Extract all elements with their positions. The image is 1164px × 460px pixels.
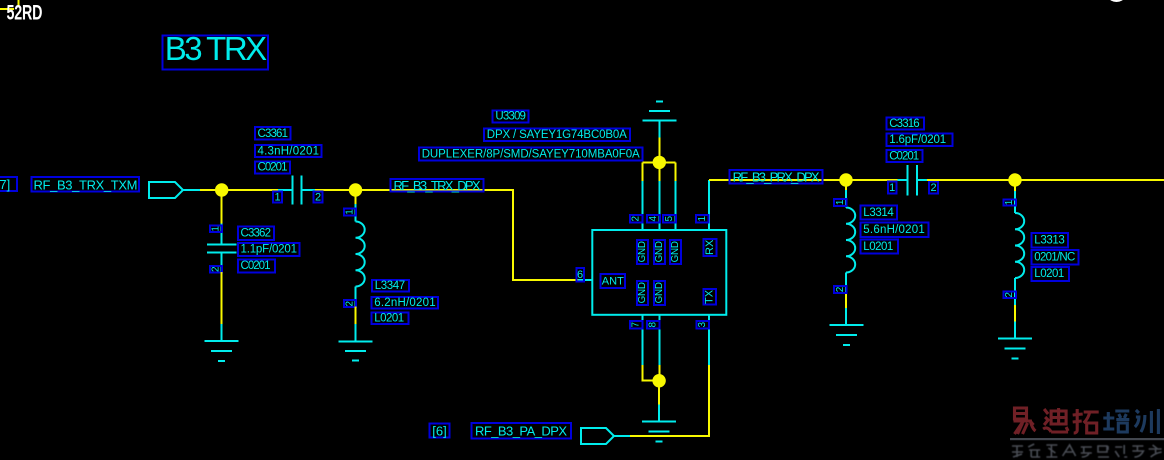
- footprint L0201 L3314: [861, 240, 898, 254]
- pin 6 of U3309: [578, 279, 592, 281]
- svg-text:1: 1: [344, 209, 355, 215]
- junction node TXM / L3347: [349, 183, 362, 196]
- svg-text:RF_B3_PRX_DPX: RF_B3_PRX_DPX: [733, 169, 820, 184]
- junction node TXM / C3362: [215, 183, 228, 196]
- wire net RF_B3_TRX_DPX to U3309 pin 6: [356, 190, 579, 280]
- watermark yidituo peixun text: [1014, 408, 1159, 434]
- ground below U3309: [642, 405, 676, 442]
- svg-text:1: 1: [697, 215, 708, 221]
- svg-text:1: 1: [274, 191, 280, 203]
- pin 4 of U3309: [658, 181, 660, 230]
- wire junction to C3361 pin 1: [222, 189, 278, 191]
- wire junction to pins 2 4 5: [642, 162, 675, 181]
- label C3316: [887, 118, 925, 130]
- pin 5 of U3309: [675, 181, 677, 230]
- wire junction to L3314 pin 1: [845, 180, 847, 190]
- svg-text:GND: GND: [670, 241, 681, 262]
- label L3314: [861, 206, 898, 220]
- svg-text:TX: TX: [704, 289, 716, 304]
- svg-text:5: 5: [664, 215, 675, 221]
- svg-text:7: 7: [631, 321, 642, 327]
- svg-text:[7]: [7]: [0, 177, 10, 192]
- pin name TX: [703, 289, 716, 305]
- value DPX / SAYEY1G74BC0B0A: [484, 129, 630, 141]
- pin 1 label L3313: [1003, 199, 1016, 205]
- svg-text:RF_B3_TRX_TXM: RF_B3_TRX_TXM: [34, 177, 138, 192]
- pin name GND pin2: [637, 240, 648, 264]
- svg-text:4: 4: [648, 215, 659, 221]
- label U3309: [493, 110, 529, 122]
- svg-text:U3309: U3309: [495, 111, 526, 123]
- pin 1 label C3316: [888, 182, 897, 194]
- svg-text:DPX / SAYEY1G74BC0B0A: DPX / SAYEY1G74BC0B0A: [487, 129, 627, 141]
- pin 2 label L3314: [834, 286, 846, 293]
- net label RF_B3_TRX_TXM: [31, 177, 139, 192]
- svg-text:[6]: [6]: [432, 423, 446, 438]
- wire junction to L3313 pin 1: [1014, 180, 1016, 191]
- pin 1 label L3314: [834, 199, 846, 206]
- pin 1 of U3309: [708, 180, 710, 230]
- watermark logo sliver top right: [1109, 0, 1124, 2]
- svg-text:1: 1: [1004, 199, 1015, 205]
- junction node PRX / L3313: [1008, 173, 1021, 186]
- inductor L3314: [846, 190, 855, 294]
- footprint L0201 L3347: [372, 313, 409, 325]
- label C3361: [255, 127, 291, 140]
- ground C3362: [205, 324, 239, 361]
- svg-text:L0201: L0201: [374, 313, 404, 325]
- svg-text:ANT: ANT: [602, 275, 624, 287]
- wire port to junction: [200, 189, 222, 191]
- label L3347: [372, 280, 409, 292]
- pin 2 label C3362: [210, 266, 222, 273]
- wire C3362 pin 2 to ground: [221, 272, 223, 324]
- svg-text:1: 1: [835, 199, 846, 205]
- wire junction to L3347 pin 1: [355, 190, 357, 204]
- pin 1 label C3362: [210, 226, 222, 233]
- svg-text:52RD: 52RD: [7, 1, 43, 24]
- pin number 3: [697, 321, 710, 329]
- svg-text:DUPLEXER/8P/SMD/SAYEY710MBA0F0: DUPLEXER/8P/SMD/SAYEY710MBA0F0A: [422, 148, 640, 160]
- wire pin 7 to junction below U3309: [643, 365, 660, 381]
- pin name GND pin7: [637, 281, 648, 305]
- pin number 2: [630, 215, 643, 223]
- svg-text:L3313: L3313: [1034, 235, 1065, 247]
- capacitor C3316: [898, 165, 927, 196]
- watermark slogan small text: [0, 0, 1, 1]
- wire pin 3 to port RF_B3_PA_DPX: [630, 365, 709, 436]
- svg-text:L0201: L0201: [863, 241, 893, 253]
- footprint C0201: [255, 161, 290, 173]
- title B3 TRX: [162, 30, 268, 69]
- svg-text:2: 2: [211, 266, 222, 272]
- wire ground to junction above U3309: [658, 138, 660, 163]
- svg-text:RF_B3_PA_DPX: RF_B3_PA_DPX: [475, 423, 567, 438]
- svg-text:C0201: C0201: [258, 162, 288, 174]
- svg-text:6: 6: [577, 269, 583, 281]
- wire L3313 pin 2 to ground: [1014, 305, 1016, 322]
- label L3313: [1032, 233, 1069, 247]
- wire C3361 pin 2 to junction: [315, 189, 356, 191]
- footprint DUPLEXER/8P/SMD/SAYEY710MBA0F0A: [419, 148, 642, 161]
- net label RF_B3_TRX_DPX: [390, 178, 483, 193]
- pin name GND pin8: [654, 281, 665, 305]
- wire L3347 pin 2 to ground: [355, 307, 357, 325]
- watermark underline: [1010, 438, 1164, 440]
- svg-text:L0201: L0201: [1034, 268, 1064, 280]
- label C3362: [238, 226, 274, 240]
- wire C3316 pin 2 to right edge: [927, 179, 1164, 181]
- svg-text:C3316: C3316: [889, 118, 920, 130]
- svg-text:L3347: L3347: [375, 280, 406, 292]
- ground L3314: [830, 308, 864, 345]
- wire clipped top-left horizontal: [0, 8, 14, 10]
- inductor L3347: [356, 204, 365, 307]
- svg-text:2: 2: [835, 286, 846, 292]
- reference label [7]: [0, 177, 17, 192]
- pin name GND pin4: [654, 240, 665, 264]
- footprint L0201 L3313: [1032, 267, 1069, 281]
- reference label [6]: [429, 423, 449, 438]
- pin number 6: [576, 268, 584, 281]
- svg-text:1: 1: [889, 182, 895, 194]
- pin 7 of U3309: [642, 315, 644, 365]
- svg-text:B3 TRX: B3 TRX: [165, 30, 268, 67]
- junction node below U3309: [652, 374, 665, 387]
- svg-text:2: 2: [315, 191, 321, 203]
- port symbol RF_B3_TRX_TXM: [149, 182, 200, 198]
- pin name ANT: [600, 274, 625, 288]
- svg-text:GND: GND: [637, 241, 648, 262]
- wire net RF_B3_PRX_DPX pin1 to C3316: [709, 179, 898, 181]
- value 6.2nH/0201: [372, 297, 439, 309]
- svg-text:2: 2: [345, 300, 356, 306]
- footprint C0201 C3362: [238, 259, 275, 272]
- svg-text:C3362: C3362: [241, 227, 272, 239]
- pin number 5: [663, 215, 676, 223]
- duplexer U3309 body: [592, 230, 726, 315]
- wire clipped top-left vertical: [18, 0, 20, 7]
- pin 8 of U3309: [658, 315, 660, 365]
- pin 2 label L3347: [344, 300, 356, 307]
- pin number 1: [696, 215, 708, 223]
- value 1.1pF/0201: [238, 243, 300, 256]
- pin 2 label C3361: [313, 191, 322, 203]
- capacitor C3362: [207, 224, 237, 273]
- junction node PRX / L3314: [839, 173, 852, 186]
- value 4.3nH/0201: [255, 145, 322, 158]
- wire pin 8 to junction below U3309: [658, 365, 660, 381]
- pin number 4: [647, 215, 660, 223]
- svg-text:RF_B3_TRX_DPX: RF_B3_TRX_DPX: [394, 178, 481, 193]
- value 5.6nH/0201: [861, 223, 929, 237]
- svg-text:0201/NC: 0201/NC: [1034, 252, 1075, 264]
- svg-text:GND: GND: [637, 282, 648, 303]
- svg-text:2: 2: [930, 182, 936, 194]
- ground L3347: [339, 324, 373, 361]
- wire L3314 pin 2 to ground: [845, 294, 847, 308]
- pin 1 label C3361: [273, 191, 282, 203]
- pin number 7: [630, 321, 643, 329]
- pin 1 label L3347: [344, 209, 356, 216]
- junction node above U3309: [653, 156, 666, 169]
- footprint C0201 C3316: [887, 150, 923, 162]
- net label RF_B3_PRX_DPX: [729, 169, 822, 184]
- inductor L3313: [1015, 191, 1024, 305]
- svg-text:6.2nH/0201: 6.2nH/0201: [374, 297, 436, 309]
- svg-text:C0201: C0201: [241, 260, 271, 272]
- svg-text:RX: RX: [704, 239, 716, 255]
- ground top flipped above U3309: [642, 102, 676, 138]
- value 1.6pF/0201: [887, 134, 953, 147]
- svg-text:5.6nH/0201: 5.6nH/0201: [863, 224, 925, 236]
- capacitor C3361: [278, 175, 315, 204]
- svg-text:1.6pF/0201: 1.6pF/0201: [889, 134, 946, 146]
- port symbol RF_B3_PA_DPX: [581, 428, 630, 444]
- wire junction to bottom ground: [658, 381, 660, 405]
- svg-text:3: 3: [697, 321, 708, 327]
- svg-text:1: 1: [211, 226, 222, 232]
- svg-text:GND: GND: [654, 282, 665, 303]
- svg-text:2: 2: [631, 215, 642, 221]
- svg-text:GND: GND: [654, 241, 665, 262]
- pin name RX: [703, 239, 716, 256]
- pin 2 of U3309: [641, 181, 643, 230]
- svg-text:4.3nH/0201: 4.3nH/0201: [258, 145, 320, 157]
- svg-text:2: 2: [1004, 292, 1015, 298]
- pin number 8: [647, 321, 660, 329]
- svg-text:C0201: C0201: [889, 151, 919, 163]
- wire junction to C3362 pin 1: [221, 190, 223, 224]
- pin 2 label C3316: [929, 182, 938, 194]
- svg-text:L3314: L3314: [863, 207, 894, 219]
- svg-text:1.1pF/0201: 1.1pF/0201: [241, 244, 298, 256]
- pin 2 label L3313: [1003, 292, 1016, 299]
- value 0201/NC: [1032, 250, 1079, 264]
- net label RF_B3_PA_DPX: [471, 423, 571, 439]
- pin name GND pin5: [670, 240, 681, 264]
- svg-text:C3361: C3361: [258, 128, 289, 140]
- ground L3313: [998, 322, 1032, 359]
- svg-text:8: 8: [648, 321, 659, 327]
- pin 3 of U3309: [708, 315, 710, 365]
